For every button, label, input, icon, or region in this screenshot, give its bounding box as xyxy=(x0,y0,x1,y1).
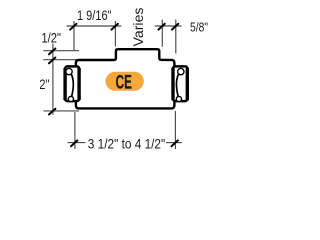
svg-text:3 1/2" to 4 1/2": 3 1/2" to 4 1/2" xyxy=(88,135,165,151)
svg-text:1 9/16": 1 9/16" xyxy=(77,8,112,23)
svg-text:Varies: Varies xyxy=(131,7,146,46)
svg-text:1/2": 1/2" xyxy=(41,30,61,45)
svg-text:5/8": 5/8" xyxy=(190,19,208,34)
svg-text:2": 2" xyxy=(39,77,49,92)
svg-text:CE: CE xyxy=(116,72,132,93)
